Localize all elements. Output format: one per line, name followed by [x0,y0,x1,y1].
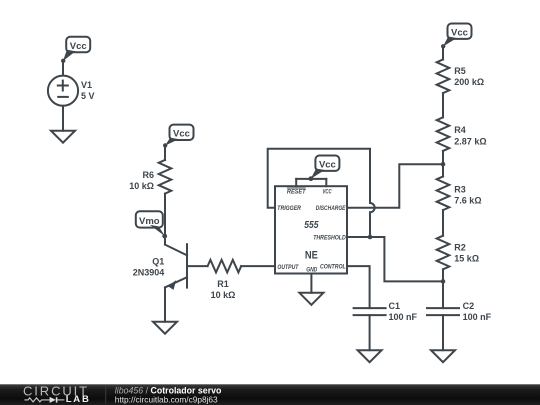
ground below C1 [358,350,382,362]
wire R6 to Q1 collector node [164,194,166,245]
wire TRIGGER loop to THRESHOLD with hop over DISCHARGE [268,149,375,237]
power flag Vcc at R6 [163,125,194,148]
ground below V1 [51,131,75,143]
svg-text:200 kΩ: 200 kΩ [454,77,484,87]
wire DISCHARGE to R4-R3 junction [347,164,443,208]
resistor R5 200k [437,60,484,94]
resistor R4 2.87k [437,117,487,151]
wire R2 to C2 node [442,269,444,308]
node junction R4/R3/DISCHARGE [441,162,446,167]
svg-text:LAB: LAB [66,394,91,405]
svg-text:R2: R2 [454,243,466,253]
svg-text:15 kΩ: 15 kΩ [454,254,479,264]
wire Vcc to R5 [442,47,444,60]
svg-text:R4: R4 [454,125,466,135]
svg-text:Vcc: Vcc [173,129,190,140]
pin stub VCC [325,179,327,186]
wire V1 bottom lead [62,106,64,131]
svg-text:2.87 kΩ: 2.87 kΩ [454,136,486,146]
svg-text:Q1: Q1 [152,256,164,266]
wire C2 to ground [442,315,444,350]
pin stub RESET [295,179,297,186]
ground below C2 [431,350,455,362]
wire C1 to ground [369,315,371,350]
resistor R6 10k [129,160,171,194]
wire CONTROL to C1 [347,266,370,308]
svg-text:R6: R6 [142,170,154,180]
svg-text:5 V: 5 V [81,91,95,101]
svg-text:CONTROL: CONTROL [320,265,346,271]
svg-text:Vmo: Vmo [139,216,160,227]
svg-text:100 nF: 100 nF [463,312,492,322]
svg-text:TRIGGER: TRIGGER [277,206,301,212]
svg-text:RESET: RESET [287,189,307,195]
wire Q1 emitter down [164,287,166,321]
svg-text:THRESHOLD: THRESHOLD [313,235,346,241]
wire R3 to R2 [442,210,444,236]
footer bar [0,384,540,405]
net flag Vmo [136,211,167,238]
wire RESET-VCC bar [296,178,326,180]
svg-text:R1: R1 [217,279,229,289]
svg-text:C2: C2 [463,301,475,311]
svg-text:Vcc: Vcc [70,41,87,52]
svg-text:R5: R5 [454,66,466,76]
svg-text:NE: NE [305,250,318,262]
wire Q1 base to R1 [187,265,208,267]
wire V1 top lead [62,61,64,76]
voltage source V1 5V [48,76,95,106]
wire THRESHOLD [347,237,443,281]
power flag Vcc at 555 [309,156,340,182]
ground below Q1 [153,322,177,334]
svg-text:Vcc: Vcc [451,28,468,39]
svg-text:http://circuitlab.com/c9p8j63: http://circuitlab.com/c9p8j63 [115,395,218,405]
resistor R2 15k [437,236,479,270]
power flag Vcc at R5 [441,24,472,49]
power flag Vcc at V1 [61,37,90,63]
wire R6 top lead [164,146,166,160]
transistor Q1 2N3904 [133,244,187,290]
svg-text:R3: R3 [454,185,466,195]
svg-text:VCC: VCC [323,189,333,195]
svg-text:2N3904: 2N3904 [133,267,165,277]
resistor R1 10k [208,260,242,300]
wire 555 GND lead [310,274,312,293]
svg-text:7.6 kΩ: 7.6 kΩ [454,196,481,206]
svg-text:Vcc: Vcc [319,160,336,171]
node junction TRIGGER loop / THRESHOLD [368,235,373,240]
svg-text:10 kΩ: 10 kΩ [129,181,154,191]
svg-text:DISCHARGE: DISCHARGE [316,206,347,212]
svg-text:10 kΩ: 10 kΩ [211,290,236,300]
node junction R2/C2/THRESHOLD [441,279,446,284]
wire R1 to 555 OUTPUT [241,265,275,267]
capacitor C2 100nF [427,301,492,322]
wire R5 to R4 [442,93,444,117]
ground below 555 [299,293,323,305]
capacitor C1 100nF [354,301,418,322]
resistor R3 7.6k [437,177,482,211]
svg-text:555: 555 [304,220,319,231]
IC NE 555 box [275,186,347,273]
svg-text:V1: V1 [81,80,92,90]
svg-text:100 nF: 100 nF [389,312,418,322]
wire R4 to R3 [442,151,444,177]
svg-text:OUTPUT: OUTPUT [277,265,299,271]
svg-text:C1: C1 [389,301,401,311]
